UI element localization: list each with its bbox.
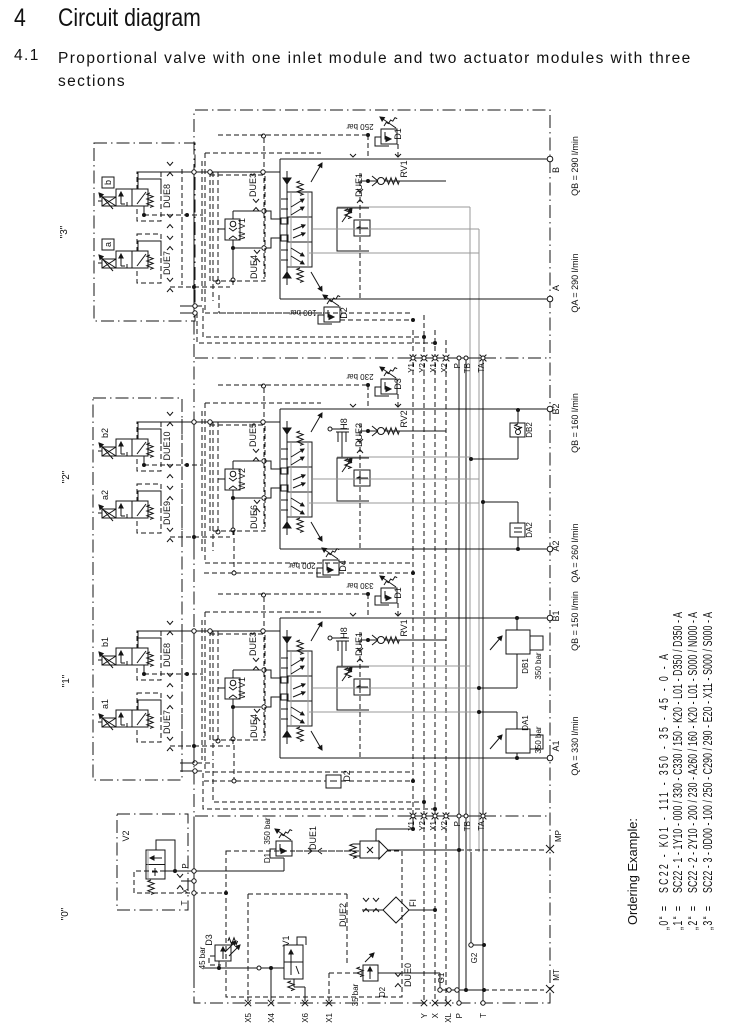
svg-text:X5: X5	[244, 1012, 253, 1022]
svg-text:DUE8: DUE8	[162, 643, 172, 667]
pilot valve dashed enclosure	[137, 631, 161, 680]
svg-text:Y2: Y2	[418, 820, 427, 830]
svg-text:V2: V2	[121, 830, 131, 841]
pilot bus X2	[445, 340, 447, 1003]
svg-text:DUE1: DUE1	[354, 632, 364, 656]
svg-text:P: P	[453, 821, 462, 826]
junction dots left	[192, 744, 196, 748]
heading: 4 Circuit diagram	[14, 4, 26, 33]
inlet check valve	[296, 850, 360, 852]
inlet supply solid line	[193, 818, 195, 988]
WV pilot supply from relief line	[262, 593, 266, 597]
svg-text:X2: X2	[440, 362, 449, 372]
svg-text:DB1: DB1	[521, 658, 530, 674]
work line A	[280, 548, 550, 550]
MT port	[546, 985, 554, 993]
svg-text:b: b	[103, 180, 113, 185]
svg-text:35 bar: 35 bar	[351, 983, 360, 1006]
svg-text:45 bar: 45 bar	[198, 946, 207, 969]
fan row y=358	[404, 357, 483, 359]
X4 drop	[270, 968, 272, 1001]
module dashed enclosure	[205, 611, 321, 613]
svg-text:TB: TB	[463, 363, 472, 373]
pilot bus Y1	[412, 330, 414, 817]
section1 DA1 valve	[506, 729, 530, 753]
svg-text:QB = 160 l/min: QB = 160 l/min	[570, 393, 580, 453]
pilot box sections 2+1	[93, 398, 182, 780]
compensator	[337, 208, 369, 251]
LS gray bus 1	[469, 207, 471, 852]
WV bottom line	[232, 240, 234, 248]
svg-text:G1: G1	[437, 972, 446, 983]
staircase 1 circles on left boundary	[193, 304, 197, 308]
svg-text:P: P	[181, 863, 190, 868]
svg-text:TB: TB	[463, 821, 472, 831]
pilot drain dashed	[144, 464, 203, 466]
spool centering bottom	[283, 731, 291, 737]
pilot drain vertical on boundary	[193, 422, 195, 554]
svg-text:350 bar: 350 bar	[263, 817, 272, 844]
compensator LS gray line	[313, 687, 479, 689]
svg-text:X6: X6	[301, 1012, 310, 1022]
inlet V2 dash-dot box	[117, 814, 188, 910]
svg-text:X: X	[431, 1012, 440, 1018]
gray LS link bottom	[309, 252, 479, 254]
port circle A	[547, 296, 553, 302]
staircase 2 dashed route a	[197, 763, 422, 802]
WV top line	[232, 211, 234, 219]
svg-text:Y1: Y1	[407, 362, 416, 372]
check valve RV	[360, 639, 446, 641]
svg-text:B1: B1	[551, 610, 561, 621]
bottom ports Y X XL P T	[421, 1000, 427, 1006]
svg-text:P: P	[453, 363, 462, 368]
section internal dashed verticals	[181, 419, 183, 535]
WV supply from left	[217, 631, 219, 739]
svg-text:FI: FI	[408, 899, 418, 907]
inlet P X T ports	[165, 870, 192, 872]
compensator LS gray line	[313, 228, 479, 230]
spool centering bottom	[283, 272, 291, 278]
module dashed enclosure	[205, 402, 321, 404]
svg-text:b2: b2	[100, 428, 110, 438]
svg-text:„0“ =: „0“ =	[657, 906, 671, 930]
svg-text:DUE2: DUE2	[338, 903, 348, 927]
svg-text:SC22 - K01 - 111 - 350 - 35 -: SC22 - K01 - 111 - 350 - 35 - 45 - 0 - A	[657, 654, 671, 893]
svg-text:TA: TA	[477, 820, 486, 830]
svg-text:a1: a1	[100, 699, 110, 709]
work line B	[280, 408, 550, 410]
main spool block	[287, 442, 312, 517]
main spool block	[287, 651, 312, 726]
svg-text:QA = 290 l/min: QA = 290 l/min	[570, 253, 580, 312]
svg-text:"0": "0"	[60, 907, 71, 920]
bottom ports X5 X4 X6 X1	[245, 1000, 251, 1006]
section2 DA2 valve	[510, 523, 525, 537]
section2 DB2 valve	[510, 423, 525, 437]
svg-text:„2“ =: „2“ =	[686, 906, 700, 930]
fan row y=816	[404, 815, 483, 817]
svg-text:QA = 260 l/min: QA = 260 l/min	[570, 523, 580, 582]
svg-text:H8: H8	[339, 418, 349, 430]
section solid box left edge	[279, 409, 281, 549]
svg-text:Y2: Y2	[418, 362, 427, 372]
svg-text:XL: XL	[444, 1012, 453, 1022]
inlet dashed enclosure	[226, 851, 402, 997]
svg-text:D2: D2	[342, 770, 352, 782]
svg-text:W V2: W V2	[237, 468, 247, 490]
svg-text:DUE1: DUE1	[354, 173, 364, 197]
gray LS link top	[337, 206, 470, 208]
inlet P supply line	[196, 870, 284, 872]
staircase 2 dashed route b	[197, 771, 433, 809]
svg-text:DUE10: DUE10	[162, 431, 172, 460]
inlet relief D3 45bar	[215, 945, 231, 961]
svg-text:D2: D2	[339, 307, 349, 319]
pilot drain dashed	[144, 673, 203, 675]
inlet valve V2	[146, 850, 165, 879]
svg-text:X1: X1	[429, 362, 438, 372]
port G1 and MT line	[439, 973, 441, 988]
svg-text:350 bar: 350 bar	[534, 726, 543, 753]
pilot drain dashed	[144, 214, 203, 216]
svg-text:V1: V1	[281, 935, 291, 946]
svg-text:D1: D1	[393, 128, 403, 140]
WV drain down	[232, 709, 234, 744]
svg-text:DUE3: DUE3	[248, 632, 258, 656]
pilot valve dashed enclosure	[137, 234, 161, 283]
section1 bottom box D2	[326, 775, 341, 788]
staircase 1 dashed route a	[197, 306, 422, 337]
svg-text:DUE7: DUE7	[162, 251, 172, 275]
svg-text:D1: D1	[263, 852, 272, 863]
spool centering bottom	[283, 522, 291, 528]
WV drain down	[232, 500, 234, 535]
WV supply from left	[217, 172, 219, 280]
relief valve D1 top	[381, 129, 397, 144]
V2 pilot dashed loop	[134, 871, 224, 893]
pilot valve dashed enclosure	[137, 693, 161, 742]
outer boundary frame dash-dot	[194, 110, 550, 1003]
X5 drop	[247, 997, 249, 1001]
WV drain down	[232, 250, 234, 285]
LS gray bus 2	[478, 229, 480, 852]
svg-text:X1: X1	[429, 820, 438, 830]
section2 bottom relief D4 200 bar	[323, 560, 339, 575]
port circle B	[547, 406, 553, 412]
WV pilot supply from relief line	[262, 134, 266, 138]
svg-text:D4: D4	[338, 560, 348, 572]
svg-text:230 bar: 230 bar	[346, 372, 373, 381]
pilot valve dashed enclosure	[137, 422, 161, 471]
port G2	[470, 852, 472, 943]
pilot valve dashed enclosure	[137, 484, 161, 533]
svg-text:350 bar: 350 bar	[534, 652, 543, 679]
pilot box section 3	[94, 143, 195, 321]
svg-text:MT: MT	[552, 969, 561, 981]
check valve RV	[360, 430, 446, 432]
svg-text:DUE5: DUE5	[248, 423, 258, 447]
pilot bus Y2	[423, 315, 425, 1003]
pilot bus X1	[434, 330, 436, 1003]
section solid box left edge	[279, 159, 281, 299]
DUE1 pilot vertical dashed	[359, 632, 361, 757]
inlet relief D2 35bar	[363, 965, 378, 981]
svg-text:W V1: W V1	[237, 218, 247, 240]
svg-text:A1: A1	[551, 740, 561, 751]
svg-text:A: A	[551, 285, 561, 291]
staircase 2 relief D2 line	[204, 780, 326, 782]
gray LS link top	[337, 665, 470, 667]
section internal dashed verticals	[181, 169, 183, 285]
port circle A	[547, 546, 553, 552]
pilot supply line top	[138, 630, 280, 632]
svg-text:QB = 290 l/min: QB = 290 l/min	[570, 136, 580, 196]
WV bottom line	[232, 699, 234, 707]
junction dots left	[192, 285, 196, 289]
svg-text:T: T	[180, 900, 189, 905]
X1 bus drop	[328, 973, 330, 1001]
filter FI	[383, 897, 409, 923]
svg-text:DUE8: DUE8	[162, 184, 172, 208]
work line A	[280, 757, 550, 759]
work line B	[280, 617, 550, 619]
svg-text:D1: D1	[393, 587, 403, 599]
svg-text:W V1: W V1	[237, 677, 247, 699]
port circle B	[547, 156, 553, 162]
DUE1 pilot vertical dashed	[359, 423, 361, 548]
shuttle valve H8	[328, 636, 332, 640]
relief D1 drop lines	[367, 385, 369, 409]
chevron column + DUE labels	[167, 412, 173, 416]
svg-text:200 bar: 200 bar	[288, 561, 315, 570]
svg-text:DUE7: DUE7	[162, 710, 172, 734]
WV dashed enclosure	[210, 634, 265, 740]
relief valve D1 top	[381, 379, 397, 394]
svg-text:DUE2: DUE2	[354, 423, 364, 447]
svg-text:SC22 - 2 - 2Y10 - 200 / 230 -: SC22 - 2 - 2Y10 - 200 / 230 - A260 / 160…	[686, 612, 700, 893]
D3 drop line	[218, 961, 220, 968]
check valve outlet to Y1	[375, 829, 377, 841]
heading: 4.1 Proportional valve ...	[14, 47, 40, 65]
inlet line y968	[204, 967, 284, 969]
svg-text:X4: X4	[267, 1012, 276, 1022]
pilot drain vertical on boundary	[193, 631, 195, 763]
svg-text:QA = 330 l/min: QA = 330 l/min	[570, 716, 580, 775]
check valve RV	[360, 180, 446, 182]
section3 bottom relief D2 100 bar	[324, 307, 340, 322]
chevron column + DUE labels	[167, 621, 173, 625]
section solid box left edge	[279, 618, 281, 758]
relief valve D1 top	[381, 588, 397, 603]
svg-text:MP: MP	[554, 830, 563, 842]
pilot supply line top	[138, 421, 280, 423]
svg-text:SC22 - 1 - 1Y10 - 000 / 330 -: SC22 - 1 - 1Y10 - 000 / 330 - C330 / 150…	[671, 612, 685, 893]
svg-text:"3": "3"	[59, 225, 70, 238]
svg-text:DUE0: DUE0	[403, 963, 413, 987]
bus TB	[465, 359, 467, 990]
work line B	[280, 158, 550, 160]
junction dots left	[192, 535, 196, 539]
shuttle valve H8	[328, 427, 332, 431]
svg-text:D3: D3	[393, 378, 403, 390]
svg-text:Y: Y	[420, 1012, 429, 1018]
svg-text:DUE3: DUE3	[248, 173, 258, 197]
pressure bus P	[458, 359, 460, 1003]
spool centering top	[283, 637, 291, 643]
chevron column + DUE labels	[167, 162, 173, 166]
inlet valve V1	[284, 945, 303, 979]
spool centering top	[283, 428, 291, 434]
svg-text:P: P	[455, 1013, 464, 1018]
WV pressure reducing valve	[225, 469, 240, 490]
svg-text:G2: G2	[470, 952, 479, 963]
compensator	[337, 458, 369, 501]
svg-text:DUE9: DUE9	[162, 501, 172, 525]
staircase 1 relief D2 line	[219, 312, 324, 314]
pilot drain vertical on boundary	[193, 172, 195, 304]
pilot valve dashed enclosure	[137, 172, 161, 221]
compensator LS gray line	[313, 478, 479, 480]
MP line	[388, 849, 459, 851]
compensator	[337, 667, 369, 710]
module dashed enclosure	[205, 152, 321, 154]
gray LS link top	[337, 456, 470, 458]
DUE1 pilot vertical dashed	[359, 173, 361, 298]
inlet relief D1 350bar	[276, 841, 292, 856]
svg-text:RV2: RV2	[399, 410, 409, 427]
svg-text:X2: X2	[440, 820, 449, 830]
svg-text:DA1: DA1	[521, 715, 530, 731]
staircase 1 dashed route b	[197, 313, 433, 343]
svg-text:„1“ =: „1“ =	[671, 906, 685, 930]
DUE1 chevrons inlet	[308, 848, 312, 854]
WV pilot supply from relief line	[262, 384, 266, 388]
V1 down line to X6	[293, 979, 295, 987]
svg-text:T: T	[479, 1013, 488, 1018]
WV dashed enclosure	[210, 425, 265, 531]
svg-text:DA2: DA2	[525, 522, 534, 538]
svg-text:RV1: RV1	[399, 619, 409, 636]
port circle A	[547, 755, 553, 761]
gray LS link bottom	[309, 711, 479, 713]
svg-text:D2: D2	[378, 986, 387, 997]
port circle B	[547, 615, 553, 621]
staircase 2 circles on left boundary	[193, 761, 197, 765]
work line A	[280, 298, 550, 300]
WV top line	[232, 670, 234, 678]
WV supply from left	[217, 422, 219, 530]
WV bottom line	[232, 490, 234, 498]
svg-text:SC22 - 3 - 0D00 - 100 / 250 -: SC22 - 3 - 0D00 - 100 / 250 - C290 / 290…	[701, 612, 715, 893]
section1 DB1 valve	[506, 630, 530, 654]
svg-text:TA: TA	[477, 362, 486, 372]
relief D1 drop lines	[367, 594, 369, 618]
svg-text:B: B	[551, 167, 561, 173]
tank bus TA	[482, 359, 484, 1003]
WV pressure reducing valve	[225, 678, 240, 699]
svg-text:Ordering Example:: Ordering Example:	[626, 818, 640, 925]
pilot supply line top	[138, 171, 280, 173]
section internal dashed verticals	[181, 628, 183, 744]
svg-text:B2: B2	[551, 403, 561, 414]
svg-text:QB = 150 l/min: QB = 150 l/min	[570, 591, 580, 651]
svg-text:D3: D3	[204, 934, 214, 946]
spool centering top	[283, 178, 291, 184]
svg-text:"1": "1"	[61, 674, 72, 687]
svg-text:H8: H8	[339, 627, 349, 639]
svg-text:a2: a2	[100, 490, 110, 500]
svg-text:b1: b1	[100, 637, 110, 647]
svg-text:DUE1: DUE1	[308, 826, 318, 850]
svg-text:„3“ =: „3“ =	[701, 906, 715, 930]
svg-text:X1: X1	[325, 1012, 334, 1022]
relief D1 drop lines	[367, 135, 369, 159]
svg-text:DB2: DB2	[525, 422, 534, 438]
svg-text:100 bar: 100 bar	[289, 308, 316, 317]
WV pressure reducing valve	[225, 219, 240, 240]
gray LS link bottom	[309, 502, 479, 504]
svg-text:330 bar: 330 bar	[346, 581, 373, 590]
MP port	[546, 845, 554, 853]
svg-text:RV1: RV1	[399, 160, 409, 177]
svg-text:A2: A2	[551, 540, 561, 551]
svg-text:a: a	[103, 242, 113, 247]
svg-text:250 bar: 250 bar	[346, 122, 373, 131]
main spool block	[287, 192, 312, 267]
WV top line	[232, 461, 234, 469]
svg-text:"2": "2"	[61, 470, 72, 483]
WV dashed enclosure	[210, 175, 265, 281]
